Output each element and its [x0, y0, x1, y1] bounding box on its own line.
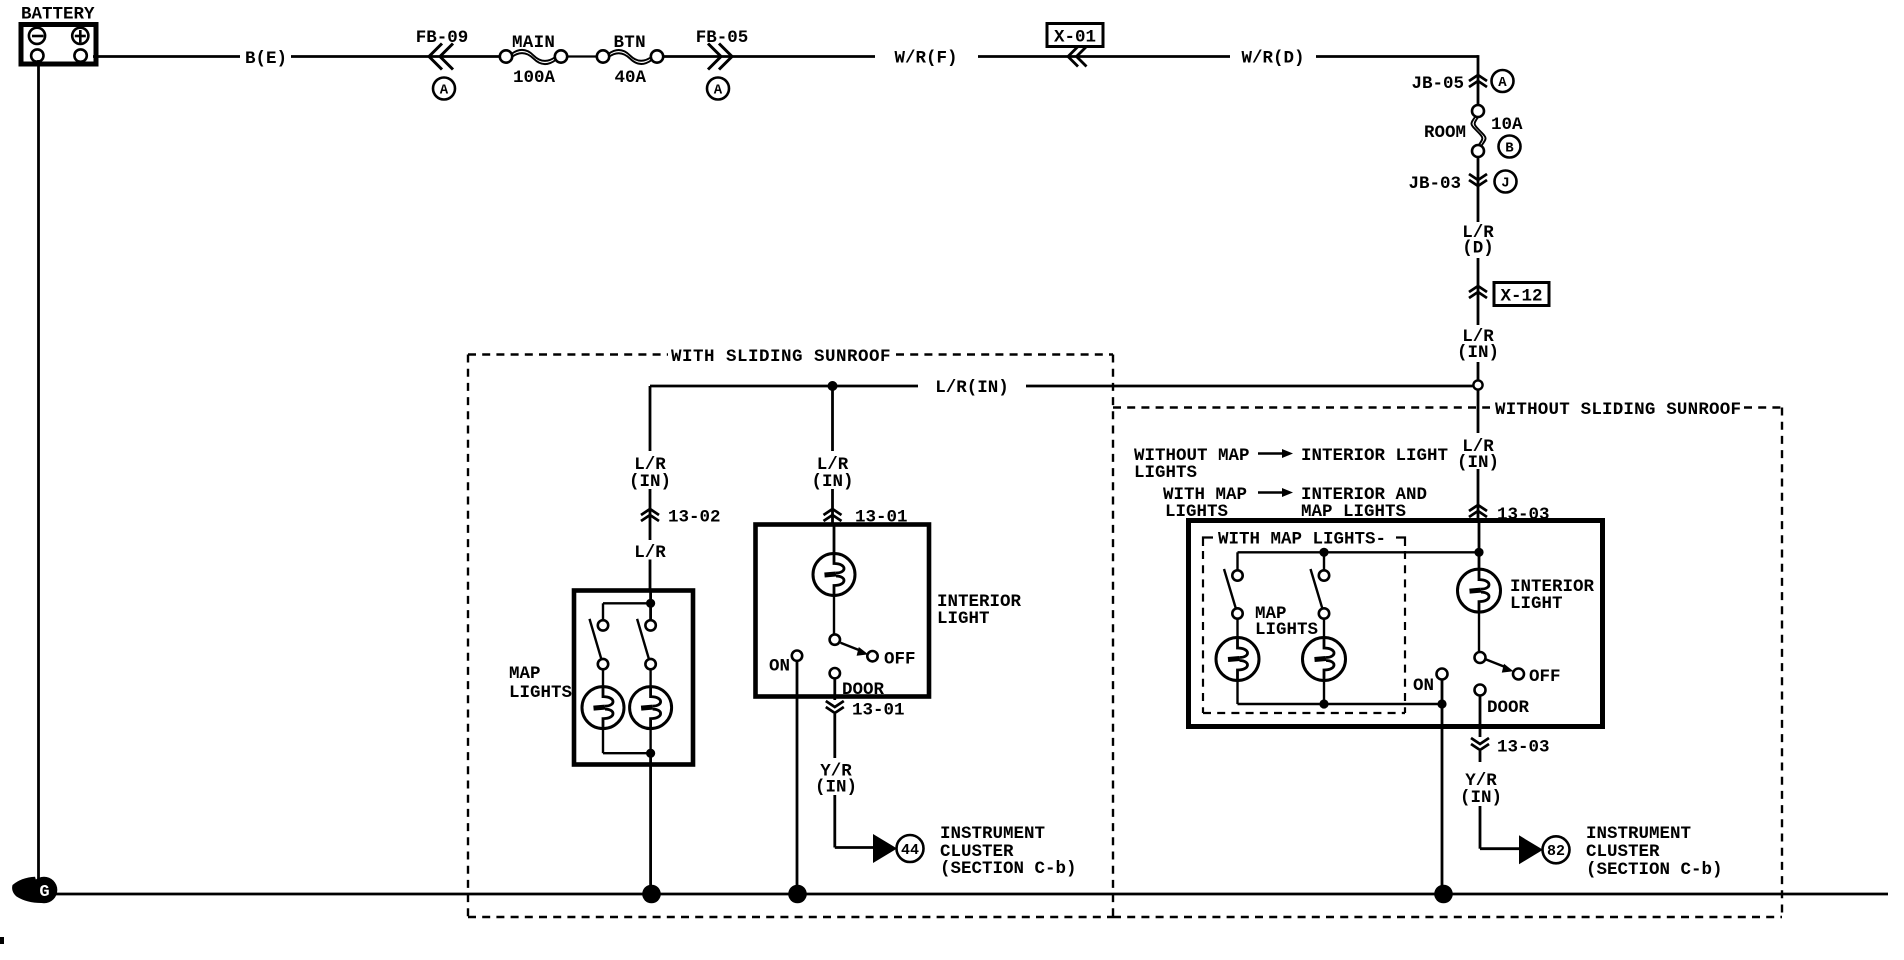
- connector X-12: [1469, 283, 1549, 307]
- wire DOOR out (no sunroof): [1479, 696, 1482, 763]
- svg-text:J: J: [1501, 176, 1509, 192]
- dashed box WITH SLIDING SUNROOF: [468, 347, 1113, 917]
- connector FB-05: [696, 28, 749, 100]
- connector 13-02: [641, 508, 721, 528]
- junction dot map lights ground: [642, 885, 661, 904]
- wire W/R(F): [663, 49, 1230, 69]
- bulb map light 2 (no sunroof): [1303, 638, 1346, 681]
- connector 13-01 (top): [824, 508, 908, 528]
- svg-text:WITHOUT SLIDING SUNROOF: WITHOUT SLIDING SUNROOF: [1495, 400, 1741, 420]
- wire MAIN to BTN: [567, 55, 597, 57]
- svg-text:44: 44: [901, 842, 919, 859]
- svg-text:(IN): (IN): [1460, 788, 1502, 808]
- svg-text:10A: 10A: [1491, 115, 1523, 135]
- svg-text:(IN): (IN): [629, 472, 671, 492]
- wire battery negative to ground: [37, 60, 40, 883]
- contact DOOR (no sunroof): [1475, 685, 1530, 719]
- wire left branch down: [649, 386, 652, 590]
- svg-text:ON: ON: [769, 657, 790, 677]
- fuse ROOM 10A: [1424, 105, 1523, 158]
- svg-text:OFF: OFF: [884, 650, 916, 670]
- svg-text:LIGHTS: LIGHTS: [509, 683, 572, 703]
- note WITHOUT MAP LIGHTS -> INTERIOR LIGHT: [1134, 446, 1448, 483]
- svg-text:WITH SLIDING SUNROOF: WITH SLIDING SUNROOF: [671, 347, 891, 367]
- svg-text:W/R(F): W/R(F): [894, 49, 957, 69]
- wire ROOM fuse to JB-03: [1477, 157, 1480, 222]
- wire map-lights top link (no sunroof): [1238, 548, 1484, 571]
- wire L/R(D) to X-12: [1477, 258, 1480, 325]
- fuse BTN 40A: [597, 33, 663, 88]
- svg-text:INSTRUMENT: INSTRUMENT: [1586, 824, 1691, 844]
- svg-text:A: A: [440, 83, 449, 99]
- connector 13-01 (bottom): [826, 701, 905, 721]
- switch map light 2 (no sunroof): [1311, 569, 1330, 619]
- svg-text:MAP: MAP: [509, 664, 541, 684]
- svg-text:A: A: [714, 83, 723, 99]
- wire ON to ground (sunroof): [796, 661, 799, 894]
- svg-text:(SECTION C-b): (SECTION C-b): [1586, 860, 1723, 880]
- switch interior light common (sunroof): [830, 634, 840, 644]
- note WITH MAP LIGHTS -> INTERIOR AND MAP LIGHTS: [1163, 485, 1427, 522]
- label INSTRUMENT CLUSTER (sunroof): [940, 824, 1077, 879]
- connector 13-03 (bottom): [1471, 738, 1550, 758]
- svg-text:CLUSTER: CLUSTER: [1586, 842, 1660, 862]
- arrow to instrument cluster 44: [873, 834, 924, 863]
- svg-text:B: B: [1505, 141, 1514, 157]
- bulb map light 2 (sunroof): [630, 687, 672, 729]
- svg-text:(IN): (IN): [1457, 343, 1499, 363]
- svg-text:INSTRUMENT: INSTRUMENT: [940, 824, 1045, 844]
- svg-text:(IN): (IN): [811, 472, 853, 492]
- label L/R (IN) left branch: [629, 455, 671, 492]
- svg-text:100A: 100A: [513, 68, 556, 88]
- label INTERIOR LIGHT (no sunroof): [1510, 577, 1595, 614]
- connector 13-03 (top): [1469, 505, 1550, 525]
- component box INTERIOR LIGHT unit (no sunroof): [1189, 521, 1603, 727]
- contact OFF (sunroof): [867, 650, 915, 670]
- svg-text:JB-05: JB-05: [1411, 74, 1464, 94]
- svg-text:ROOM: ROOM: [1424, 123, 1466, 143]
- switch blade to OFF (sunroof): [841, 643, 869, 656]
- svg-text:INTERIOR LIGHT: INTERIOR LIGHT: [1301, 446, 1448, 466]
- svg-text:W/R(D): W/R(D): [1241, 49, 1304, 69]
- svg-text:LIGHTS: LIGHTS: [1134, 463, 1197, 483]
- svg-text:LIGHT: LIGHT: [937, 609, 990, 629]
- svg-text:LIGHT: LIGHT: [1510, 594, 1563, 614]
- scan mark: [0, 937, 4, 944]
- bulb interior light (no sunroof): [1458, 569, 1501, 612]
- wire Y/R to instrument cluster (sunroof): [835, 795, 874, 848]
- bulb map light 1 (no sunroof): [1216, 638, 1259, 681]
- label Y/R (IN) (sunroof): [815, 762, 857, 798]
- switch map light 1 (no sunroof): [1224, 569, 1243, 619]
- wire junction to connector 13-03: [1477, 390, 1480, 520]
- wire feed to interior bulb (sunroof): [833, 525, 836, 554]
- junction dot ON ground (no sunroof): [1434, 885, 1453, 904]
- wire switches to map bulbs (sunroof): [603, 669, 651, 686]
- svg-text:A: A: [1498, 75, 1507, 91]
- switch map light 1 (sunroof): [590, 619, 609, 669]
- svg-text:DOOR: DOOR: [842, 680, 885, 700]
- label L/R (IN) center branch: [811, 455, 853, 492]
- svg-text:ON: ON: [1413, 676, 1434, 696]
- wire ON to ground (no sunroof): [1441, 680, 1444, 895]
- svg-text:L/R: L/R: [634, 543, 666, 563]
- component box MAP LIGHTS (sunroof): [574, 591, 693, 765]
- wire ground bus: [44, 893, 1888, 896]
- wire map-lights feed and top link: [603, 591, 655, 621]
- svg-text:13-03: 13-03: [1497, 738, 1550, 758]
- wire DOOR out (sunroof): [833, 678, 836, 758]
- svg-text:G: G: [39, 883, 49, 902]
- dashed box WITH MAP LIGHTS: [1203, 530, 1405, 714]
- wire Y/R to instrument cluster (no sunroof): [1480, 806, 1520, 849]
- junction dot center branch: [828, 381, 838, 391]
- label L/R (IN) upper right: [1457, 327, 1499, 363]
- svg-text:(SECTION C-b): (SECTION C-b): [940, 859, 1077, 879]
- svg-text:BATTERY: BATTERY: [21, 5, 95, 25]
- svg-text:DOOR: DOOR: [1487, 698, 1530, 718]
- label INTERIOR LIGHT (sunroof): [937, 592, 1022, 629]
- svg-text:L/R(IN): L/R(IN): [935, 378, 1009, 398]
- svg-text:(IN): (IN): [1457, 453, 1499, 473]
- wire switches to map bulbs (no sunroof): [1238, 619, 1325, 638]
- svg-text:(IN): (IN): [815, 778, 857, 798]
- switch map light 2 (sunroof): [637, 619, 656, 669]
- wire main vertical (right): [1477, 55, 1480, 105]
- svg-text:13-01: 13-01: [852, 701, 905, 721]
- ground symbol G: [12, 877, 57, 904]
- label L/R left branch: [634, 543, 666, 563]
- svg-text:40A: 40A: [615, 68, 647, 88]
- svg-text:X-01: X-01: [1054, 28, 1096, 48]
- bulb interior light (sunroof): [813, 554, 855, 596]
- wire bulb to switch common (no sunroof): [1478, 612, 1480, 652]
- svg-text:WITH MAP LIGHTS-: WITH MAP LIGHTS-: [1218, 530, 1386, 550]
- label MAP LIGHTS (no sunroof): [1255, 604, 1318, 640]
- svg-text:MAIN: MAIN: [512, 33, 555, 53]
- contact OFF (no sunroof): [1513, 667, 1561, 687]
- label MAP LIGHTS (sunroof): [509, 664, 572, 703]
- label L/R (D): [1462, 223, 1494, 259]
- connector JB-03: [1408, 171, 1516, 195]
- svg-text:OFF: OFF: [1529, 667, 1561, 687]
- wire W/R(D): [1241, 49, 1478, 69]
- fuse MAIN 100A: [500, 33, 567, 88]
- connector JB-05: [1411, 70, 1513, 94]
- wire bulb to switch common (sunroof): [833, 596, 835, 635]
- wire map bulbs to ground (sunroof): [603, 729, 655, 894]
- contact DOOR (sunroof): [830, 668, 885, 700]
- svg-text:LIGHTS: LIGHTS: [1255, 620, 1318, 640]
- svg-text:(D): (D): [1462, 239, 1494, 259]
- svg-text:BTN: BTN: [614, 33, 646, 53]
- svg-text:X-12: X-12: [1500, 287, 1542, 307]
- component box INTERIOR LIGHT (sunroof): [756, 525, 930, 697]
- wire center branch down: [831, 386, 834, 524]
- battery: [21, 5, 96, 65]
- contact ON (no sunroof): [1413, 669, 1448, 697]
- wire feed to interior bulb (no sunroof): [1478, 521, 1481, 570]
- switch blade to OFF (no sunroof): [1486, 659, 1514, 672]
- wire L/R(IN) horizontal: [650, 378, 1474, 398]
- bulb map light 1 (sunroof): [582, 687, 624, 729]
- contact ON (sunroof): [769, 651, 802, 677]
- wire to sunroof junction: [1477, 362, 1480, 380]
- dashed box WITHOUT SLIDING SUNROOF: [1113, 400, 1782, 917]
- wire B(E) battery to MAIN fuse: [93, 49, 500, 69]
- switch interior light common (no sunroof): [1475, 652, 1486, 663]
- connector FB-09: [416, 28, 469, 100]
- label INSTRUMENT CLUSTER (no sunroof): [1586, 824, 1723, 880]
- label L/R (IN) without-sunroof: [1457, 437, 1499, 473]
- svg-text:13-02: 13-02: [668, 508, 721, 528]
- svg-text:B(E): B(E): [245, 49, 287, 69]
- arrow to instrument cluster 82: [1519, 835, 1570, 864]
- svg-text:82: 82: [1547, 843, 1565, 860]
- label Y/R (IN) (no sunroof): [1460, 771, 1502, 808]
- svg-text:JB-03: JB-03: [1408, 174, 1461, 194]
- connector X-01: [1047, 24, 1103, 67]
- junction dot ON ground (sunroof): [788, 885, 807, 904]
- node sunroof branch junction: [1473, 380, 1482, 389]
- wire map bulbs bottom link (no sunroof): [1238, 681, 1447, 709]
